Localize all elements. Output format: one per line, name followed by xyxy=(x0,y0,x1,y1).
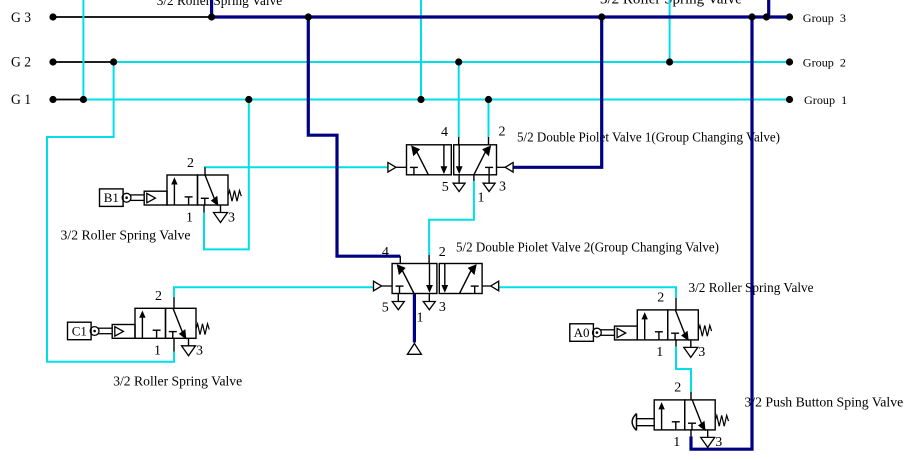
svg-text:2: 2 xyxy=(674,381,681,396)
svg-text:3/2 Push Button Sping Valve: 3/2 Push Button Sping Valve xyxy=(744,396,903,411)
svg-text:4: 4 xyxy=(382,245,389,260)
svg-text:G 2: G 2 xyxy=(11,55,31,71)
svg-text:C1: C1 xyxy=(72,324,87,339)
svg-text:Group 2: Group 2 xyxy=(803,56,846,70)
svg-text:2: 2 xyxy=(657,291,664,306)
svg-text:3: 3 xyxy=(196,344,203,359)
svg-text:3: 3 xyxy=(439,300,446,315)
svg-text:3/2 Roller Spring Valve: 3/2 Roller Spring Valve xyxy=(600,0,742,8)
svg-text:3: 3 xyxy=(228,210,235,225)
svg-text:3/2 Roller Spring Valve: 3/2 Roller Spring Valve xyxy=(61,228,191,243)
svg-text:2: 2 xyxy=(187,156,194,171)
svg-text:3: 3 xyxy=(499,180,506,195)
svg-text:3/2 Roller Spring Valve: 3/2 Roller Spring Valve xyxy=(113,374,242,389)
svg-text:2: 2 xyxy=(499,125,506,140)
svg-text:Group 3: Group 3 xyxy=(803,11,846,25)
svg-text:2: 2 xyxy=(155,289,162,304)
svg-text:5/2 Double Piolet Valve 1(Grou: 5/2 Double Piolet Valve 1(Group Changing… xyxy=(517,131,780,146)
svg-text:1: 1 xyxy=(186,210,193,225)
svg-text:G 1: G 1 xyxy=(11,92,31,108)
svg-text:3/2 Roller Spring Valve: 3/2 Roller Spring Valve xyxy=(157,0,282,9)
svg-text:A0: A0 xyxy=(574,325,590,340)
svg-text:4: 4 xyxy=(441,125,448,140)
svg-text:1: 1 xyxy=(417,310,424,325)
svg-text:5: 5 xyxy=(382,301,389,316)
svg-text:5: 5 xyxy=(442,180,449,195)
svg-text:Group 1: Group 1 xyxy=(804,93,847,107)
svg-text:3: 3 xyxy=(698,345,705,360)
svg-text:2: 2 xyxy=(439,245,446,260)
svg-text:5/2 Double Piolet Valve 2(Grou: 5/2 Double Piolet Valve 2(Group Changing… xyxy=(456,241,719,256)
svg-text:G 3: G 3 xyxy=(11,10,31,26)
svg-text:1: 1 xyxy=(673,435,680,450)
svg-text:B1: B1 xyxy=(104,190,119,205)
svg-text:1: 1 xyxy=(478,190,485,205)
svg-text:1: 1 xyxy=(656,345,663,360)
svg-text:1: 1 xyxy=(154,344,161,359)
svg-text:3: 3 xyxy=(715,435,722,450)
